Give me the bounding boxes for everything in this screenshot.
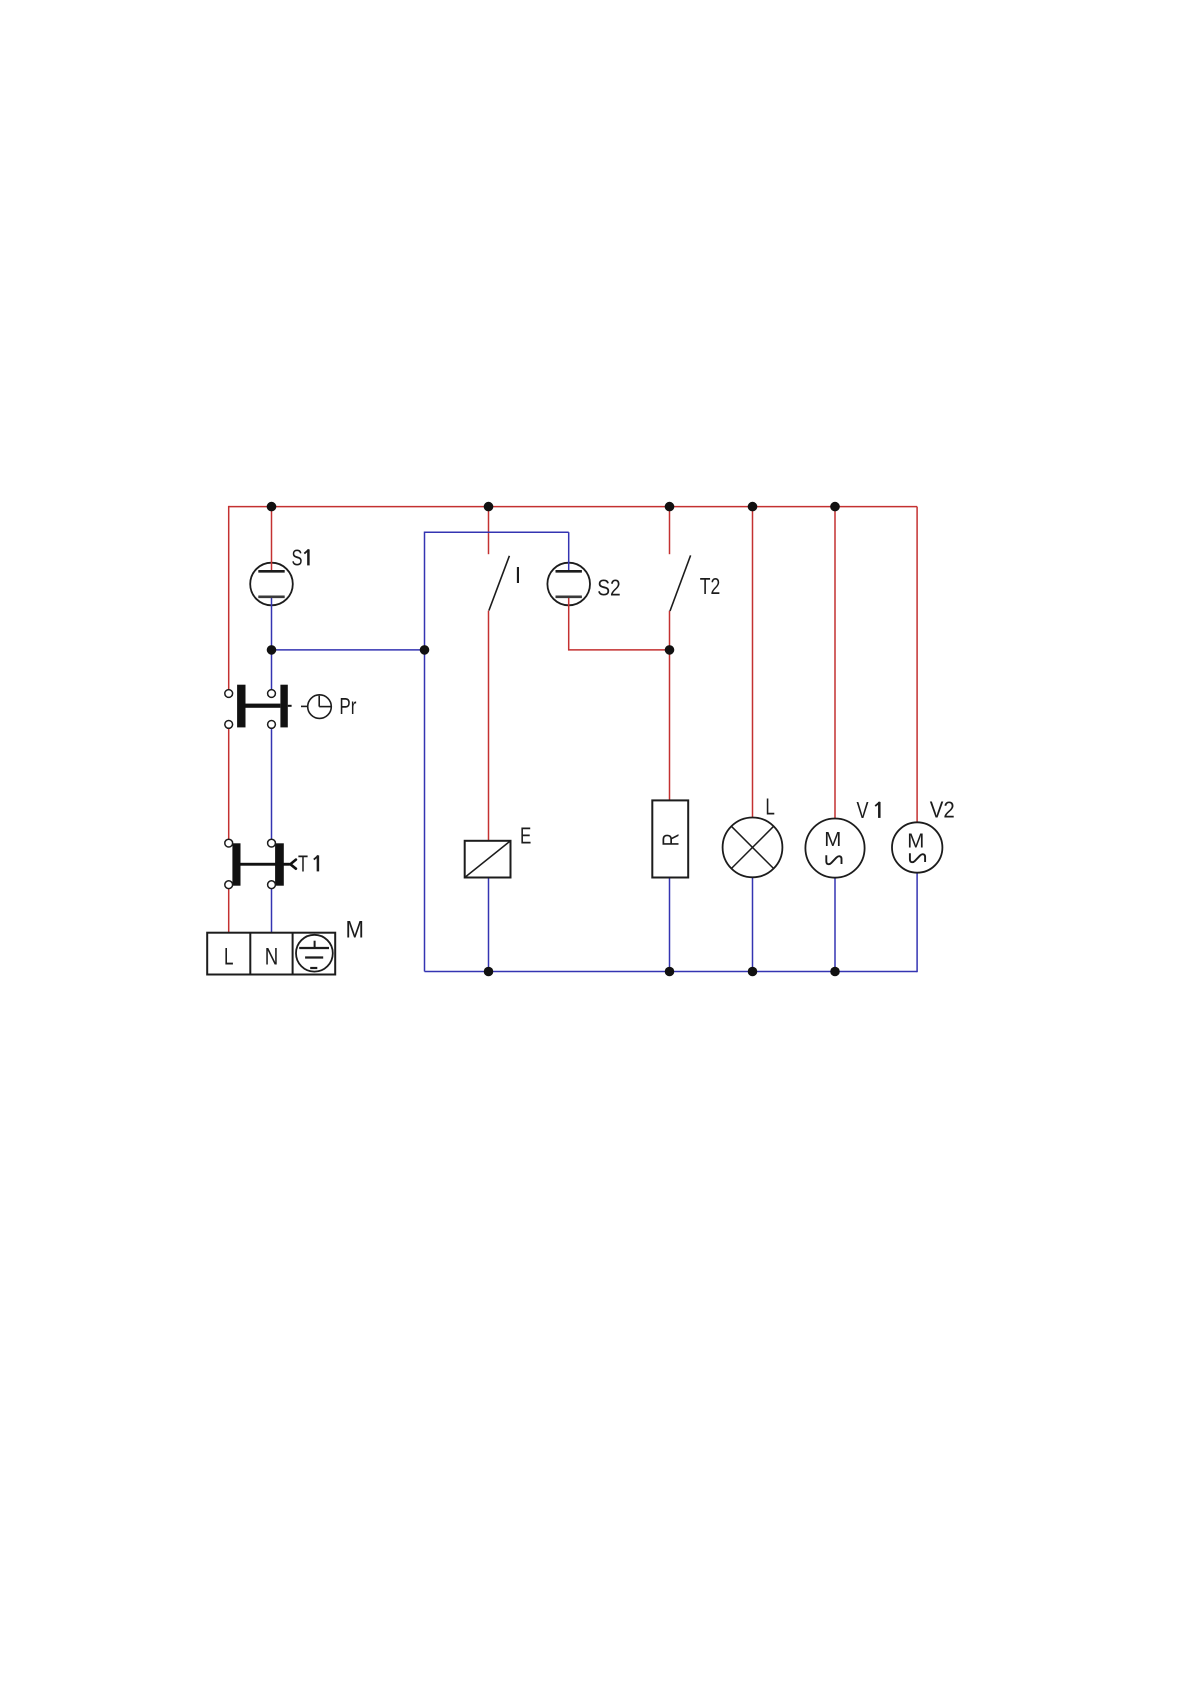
wire: bus corner to motor V2 (red) [916, 507, 918, 823]
T1 terminal bottom-left [225, 881, 233, 889]
lamp L [723, 818, 783, 878]
pressure switch S1 contacts [258, 571, 284, 597]
wire: bus to motor V1 (red) [834, 507, 836, 819]
junction: top bus at I [484, 502, 494, 512]
earth terminal symbol [296, 935, 333, 972]
junction: neutral vertical node [420, 645, 430, 655]
wire: Pr to T1 left side (red) [228, 724, 230, 843]
wire: node link at S1 branch (blue) [272, 649, 425, 651]
wire: S1 bottom to Pr terminal (blue) [271, 597, 273, 694]
svg-text:T2: T2 [700, 573, 721, 599]
svg-text:Pr: Pr [339, 693, 356, 719]
svg-text:L: L [765, 793, 775, 819]
junction: top bus at lamp L [748, 502, 758, 512]
switch T2 blade [670, 555, 691, 611]
junction: bottom bus at lamp L [748, 967, 758, 977]
wire: motor V1 bottom (blue) [834, 878, 836, 972]
motor V1 [805, 819, 864, 878]
Pr terminal top-right [268, 690, 276, 698]
junction: S2 to T2 node [665, 645, 675, 655]
wire: bus to S1 top (red) [271, 507, 273, 572]
wire: live drop to Pr terminal (red) [228, 506, 230, 694]
wire: neutral drop to S2 top (blue) [568, 532, 570, 571]
T1 terminal top-right [268, 839, 276, 847]
pressure switch S2 body [547, 563, 590, 606]
svg-text:V: V [857, 797, 870, 823]
wire: T1 to terminal N (blue) [271, 885, 273, 933]
wire: heater E bottom (blue) [488, 878, 490, 972]
svg-text:E: E [520, 822, 531, 848]
pressure switch S1 body [250, 563, 293, 606]
svg-text:N: N [265, 944, 279, 971]
svg-text:R: R [657, 833, 683, 846]
junction: top bus at S1 [267, 502, 277, 512]
mains terminal block M [207, 933, 335, 975]
wire: live top bus (red) [229, 506, 917, 508]
wire: neutral upper horizontal (blue) [425, 531, 569, 533]
junction: top bus at motor V1 [830, 502, 840, 512]
svg-text:I: I [515, 562, 521, 588]
T1 terminal bottom-right [268, 881, 276, 889]
junction: bottom bus at R [665, 967, 675, 977]
Pr clock symbol [301, 695, 332, 719]
heater E box [465, 841, 511, 878]
wire: resistor R bottom (blue) [669, 878, 671, 972]
wire: bus to switch T2 (red) [669, 507, 671, 555]
thermostat T1 contact bank [232, 843, 289, 885]
wire: switch I to heater E (red) [488, 611, 490, 841]
wire: Pr to T1 right side (blue) [271, 724, 273, 843]
svg-text:M: M [824, 828, 841, 851]
programmer Pr contact bank [237, 685, 291, 728]
wire: neutral left vertical (blue) [424, 532, 426, 972]
wire: lamp L bottom (blue) [752, 877, 754, 971]
Pr terminal bottom-left [225, 721, 233, 729]
T1 terminal top-left [225, 839, 233, 847]
wire: bus to lamp L (red) [752, 507, 754, 818]
svg-text:V2: V2 [930, 797, 955, 823]
wire: switch T2 to resistor R (red) [669, 611, 671, 801]
wire: S2 bottom to T2 node (red) [569, 597, 670, 650]
wire: motor V2 bottom (blue) [916, 873, 918, 973]
Pr terminal bottom-right [268, 721, 276, 729]
junction: bottom bus at motor V1 [830, 967, 840, 977]
pressure switch S2 contacts [556, 571, 582, 597]
svg-text:S2: S2 [597, 575, 621, 601]
svg-text:T: T [298, 851, 308, 877]
resistor R box [652, 800, 688, 877]
wire: bus to switch I (red) [488, 507, 490, 555]
Pr terminal top-left [225, 690, 233, 698]
svg-text:L: L [224, 944, 234, 971]
junction: top bus at T2 [665, 502, 675, 512]
wire: T1 to terminal L (red) [228, 885, 230, 933]
junction: S1 branch node [267, 645, 277, 655]
svg-text:M: M [907, 829, 924, 852]
motor V2 [892, 822, 942, 872]
T1 sensor mark [290, 860, 296, 869]
junction: bottom bus at E [484, 967, 494, 977]
svg-text:M: M [346, 917, 365, 944]
switch I blade [489, 556, 510, 611]
wire: neutral bottom bus (blue) [425, 971, 918, 973]
svg-text:S: S [292, 545, 303, 571]
